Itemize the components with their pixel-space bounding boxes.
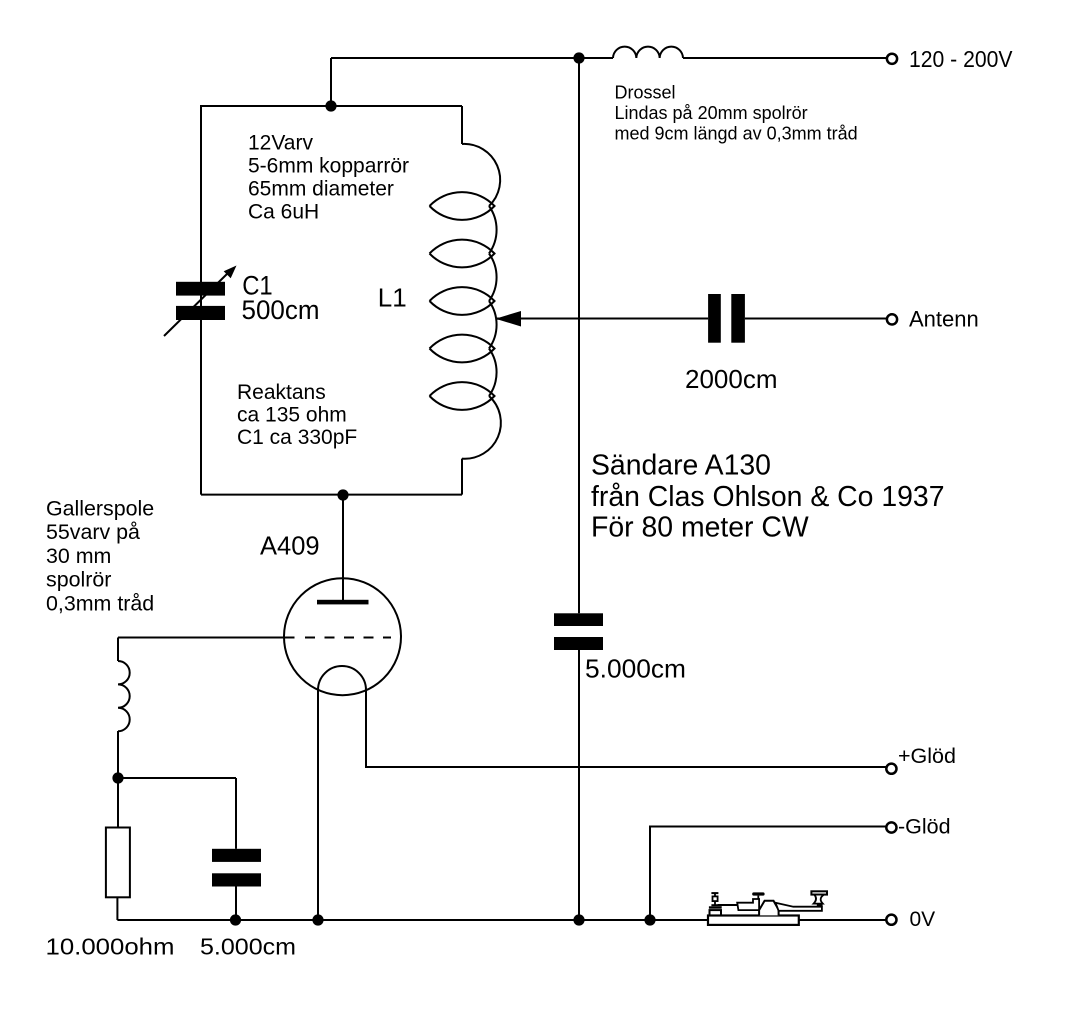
svg-text:För 80 meter CW: För 80 meter CW (591, 512, 809, 544)
svg-text:5-6mm kopparrör: 5-6mm kopparrör (248, 154, 409, 177)
svg-text:12Varv: 12Varv (248, 131, 313, 154)
svg-text:A409: A409 (260, 532, 320, 560)
svg-text:Lindas på 20mm spolrör: Lindas på 20mm spolrör (615, 103, 808, 123)
svg-text:5.000cm: 5.000cm (200, 934, 296, 960)
svg-text:+Glöd: +Glöd (898, 744, 956, 768)
svg-text:från Clas Ohlson & Co 1937: från Clas Ohlson & Co 1937 (591, 481, 945, 513)
svg-text:Reaktans: Reaktans (237, 381, 326, 404)
svg-text:120 - 200V: 120 - 200V (909, 46, 1013, 72)
svg-text:-Glöd: -Glöd (898, 815, 951, 839)
svg-text:500cm: 500cm (242, 295, 320, 325)
svg-text:ca 135 ohm: ca 135 ohm (237, 403, 347, 426)
svg-text:C1 ca 330pF: C1 ca 330pF (237, 426, 357, 449)
svg-text:55varv på: 55varv på (46, 520, 140, 544)
svg-text:med 9cm längd av 0,3mm tråd: med 9cm längd av 0,3mm tråd (615, 123, 858, 143)
svg-text:65mm diameter: 65mm diameter (248, 177, 394, 200)
svg-text:30 mm: 30 mm (46, 544, 111, 568)
svg-text:0V: 0V (910, 908, 936, 931)
svg-text:Drossel: Drossel (615, 82, 676, 102)
svg-text:Antenn: Antenn (909, 306, 979, 331)
svg-text:Gallerspole: Gallerspole (46, 496, 154, 520)
svg-text:2000cm: 2000cm (685, 364, 778, 394)
svg-text:spolrör: spolrör (46, 568, 111, 592)
svg-text:Ca 6uH: Ca 6uH (248, 200, 319, 223)
svg-text:L1: L1 (378, 283, 407, 313)
svg-text:10.000ohm: 10.000ohm (46, 934, 175, 960)
svg-text:5.000cm: 5.000cm (585, 654, 686, 684)
svg-text:Sändare A130: Sändare A130 (591, 450, 771, 482)
svg-text:0,3mm tråd: 0,3mm tråd (46, 592, 154, 616)
